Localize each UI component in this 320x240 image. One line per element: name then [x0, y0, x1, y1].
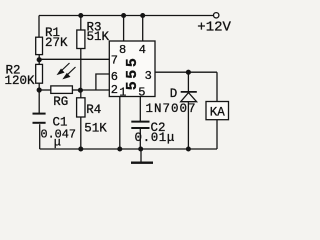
node: rail/diode bottom: [186, 147, 191, 152]
svg-text:4: 4: [139, 43, 146, 57]
resistor R3 body: [77, 30, 85, 49]
svg-text:51K: 51K: [87, 30, 110, 44]
node: rail/pin1: [117, 147, 122, 152]
svg-text:+12V: +12V: [197, 20, 231, 36]
svg-text:R4: R4: [86, 103, 101, 117]
node: rail/pin4: [140, 13, 145, 18]
svg-text:8: 8: [119, 43, 126, 57]
resistor R1 body: [36, 37, 43, 54]
wire: R2 bottom lead: [38, 83, 40, 90]
wire: R3 top lead: [80, 16, 82, 31]
svg-text:7: 7: [111, 54, 118, 68]
node: RG/R3/R4/pin2 junction: [78, 88, 83, 93]
node: R1/R2/pin7 junction: [37, 57, 42, 62]
node: rail/R3 top: [78, 13, 83, 18]
node: rail/R4 bottom: [78, 147, 83, 152]
wire: pin 6 stub and drop: [96, 74, 109, 90]
wire: R3 bottom lead crossing pin7 wire: [80, 49, 82, 91]
svg-text:1N7007: 1N7007: [146, 102, 197, 116]
wire: R1 top lead: [38, 16, 40, 38]
node: R2/RG/C1 junction: [37, 87, 42, 92]
ground: stem: [140, 149, 142, 162]
IC 555 box U1: [109, 41, 155, 97]
svg-text:0.01μ: 0.01μ: [135, 131, 176, 145]
terminal: +12V circle: [214, 13, 219, 18]
wire: R2 top lead: [38, 59, 40, 64]
svg-text:RG: RG: [53, 95, 68, 109]
wire: R1 bottom lead: [38, 55, 40, 60]
svg-text:μ: μ: [54, 136, 61, 150]
photoresistor RG body: [51, 86, 73, 94]
wire: RG left lead: [39, 89, 51, 91]
svg-text:27K: 27K: [45, 36, 68, 50]
wire: pin 3 output wire: [155, 71, 217, 73]
svg-text:555: 555: [124, 55, 141, 90]
svg-text:2: 2: [111, 83, 118, 97]
resistor R2 body: [36, 64, 43, 83]
wire: diode top lead: [187, 72, 189, 91]
wire: R4 top lead: [80, 90, 82, 98]
wire: pin 1 lead down: [119, 97, 121, 150]
capacitor C1 plates: [33, 114, 46, 123]
capacitor C2 plates: [131, 122, 149, 128]
node: rail/C2-ground: [138, 147, 143, 152]
wire: pin 5 lead to C2: [139, 97, 141, 122]
diode D symbol: [181, 92, 197, 102]
photoresistor arrows (light): [58, 63, 76, 78]
svg-text:6: 6: [111, 70, 118, 84]
wire: bottom ground rail: [40, 148, 217, 150]
wire: R4 bottom lead: [80, 117, 82, 149]
wire: C1 top lead: [38, 90, 40, 113]
wire: pin 4 lead to rail: [142, 16, 144, 42]
svg-text:51K: 51K: [84, 122, 107, 136]
resistor R4 body: [77, 98, 85, 117]
wire: KA bottom lead: [216, 120, 218, 149]
ground: bar: [131, 162, 153, 164]
wire: KA top lead: [216, 72, 218, 101]
wire: C1 bottom lead to rail: [39, 124, 41, 149]
svg-text:KA: KA: [210, 105, 226, 119]
wire: C2 bottom lead: [139, 129, 141, 149]
node: pin3/diode junction: [186, 70, 191, 75]
wire: RG right lead: [72, 89, 80, 91]
wire: pin 2 horizontal wire: [80, 89, 109, 91]
svg-text:120K: 120K: [5, 74, 36, 88]
wire: diode bottom lead: [187, 102, 189, 149]
node: rail/pin8: [121, 13, 126, 18]
wire: pin 8 lead to rail: [123, 16, 125, 42]
wire: pin 7 horizontal wire: [39, 58, 109, 60]
wire: +12V top rail: [39, 15, 213, 17]
svg-text:D: D: [170, 87, 178, 101]
svg-text:3: 3: [145, 69, 152, 83]
relay KA box: [206, 102, 229, 120]
